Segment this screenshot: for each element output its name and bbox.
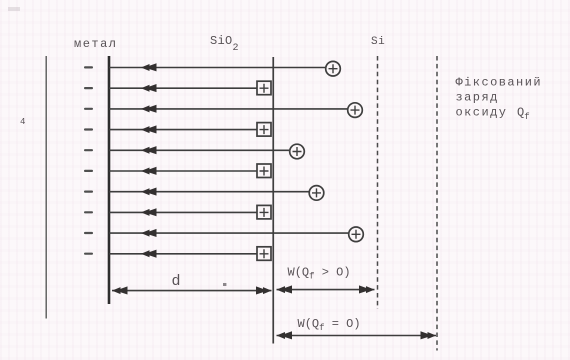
svg-text:заряд: заряд: [456, 91, 499, 105]
svg-text:SiO2: SiO2: [210, 34, 239, 54]
svg-text:Si: Si: [371, 36, 385, 48]
svg-text:4: 4: [20, 117, 25, 127]
svg-text:метал: метал: [74, 37, 118, 51]
svg-text:W(Qf > O): W(Qf > O): [288, 266, 351, 282]
svg-text:d: d: [172, 273, 181, 290]
svg-text:оксиду: оксиду: [456, 106, 508, 120]
svg-text:Фіксований: Фіксований: [456, 76, 543, 90]
svg-text:Qf: Qf: [517, 106, 530, 123]
svg-text:W(Qf = O): W(Qf = O): [298, 317, 361, 333]
